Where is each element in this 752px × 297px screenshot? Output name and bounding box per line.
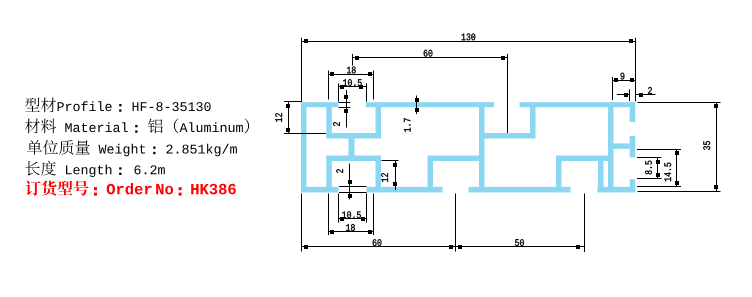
upper middle T-slot right web <box>530 102 536 138</box>
right lower T-slot left wall <box>556 156 562 193</box>
lower T-slot right wall <box>376 156 382 193</box>
spec text: material line <box>25 118 249 133</box>
lower middle T-slot left web <box>428 156 434 193</box>
bottom flange right segment <box>598 187 636 193</box>
dimension 130 (top overall width) <box>302 34 636 102</box>
right side middle arm <box>614 143 630 148</box>
right end bottom lip <box>630 179 636 192</box>
bottom flange second segment <box>367 187 443 193</box>
right lower shelf <box>556 156 614 162</box>
lower T-slot top wall <box>326 156 381 162</box>
dimension 18 (bottom slot cavity) <box>329 194 374 236</box>
spec text: unit weight line <box>27 140 237 156</box>
lower T-slot left wall <box>326 156 332 193</box>
spec text: order number line (red) <box>26 181 236 196</box>
dimension 50 (bottom right) <box>456 194 585 253</box>
upper middle shelf <box>479 133 536 139</box>
dimension 2 (upper slot flange thickness) <box>333 90 350 128</box>
dimension 1.7 (top flange thickness) <box>404 96 419 132</box>
dimension 60 (bottom left) <box>302 194 456 252</box>
dimension 12 (left side) <box>275 102 326 135</box>
dimension 10.5 (bottom slot mouth) <box>339 194 367 223</box>
lower middle shelf <box>428 156 485 162</box>
top flange right segment <box>520 102 636 107</box>
right end top lip <box>630 102 636 122</box>
dimension 9 (right end) <box>613 73 636 100</box>
upper T-slot right wall <box>376 102 382 138</box>
right lower T-slot right wall <box>598 156 604 193</box>
upper T-slot left wall <box>326 102 332 138</box>
dimension 2 (lower slot flange thickness) <box>336 164 366 200</box>
dimension 12 (middle web) <box>381 161 398 191</box>
right vertical web (full height) <box>608 102 614 192</box>
right end middle bar <box>630 136 636 157</box>
dimension 35 (overall height, right) <box>638 103 721 192</box>
dimension 10.5 (top slot mouth) <box>339 79 367 102</box>
top flange left segment <box>301 102 339 107</box>
spec text: length line <box>25 161 164 177</box>
top flange middle segment <box>366 102 494 107</box>
bottom flange left segment <box>301 187 339 193</box>
central web between slots <box>349 133 355 161</box>
dimension 18 (top slot cavity) <box>329 67 374 100</box>
dimension 2 (right end lip thickness) <box>617 87 656 101</box>
upper T-slot bottom wall <box>326 133 381 139</box>
vertical web (full height) <box>479 102 485 192</box>
bottom flange third segment <box>469 187 571 193</box>
dimension 8.5 (right slot opening) <box>637 158 662 180</box>
left outer wall <box>301 102 307 192</box>
dimension 14.5 (right cavity height) <box>637 149 681 187</box>
spec text: profile model line <box>25 98 211 113</box>
dimension 60 (top, slot centers) <box>353 50 508 133</box>
